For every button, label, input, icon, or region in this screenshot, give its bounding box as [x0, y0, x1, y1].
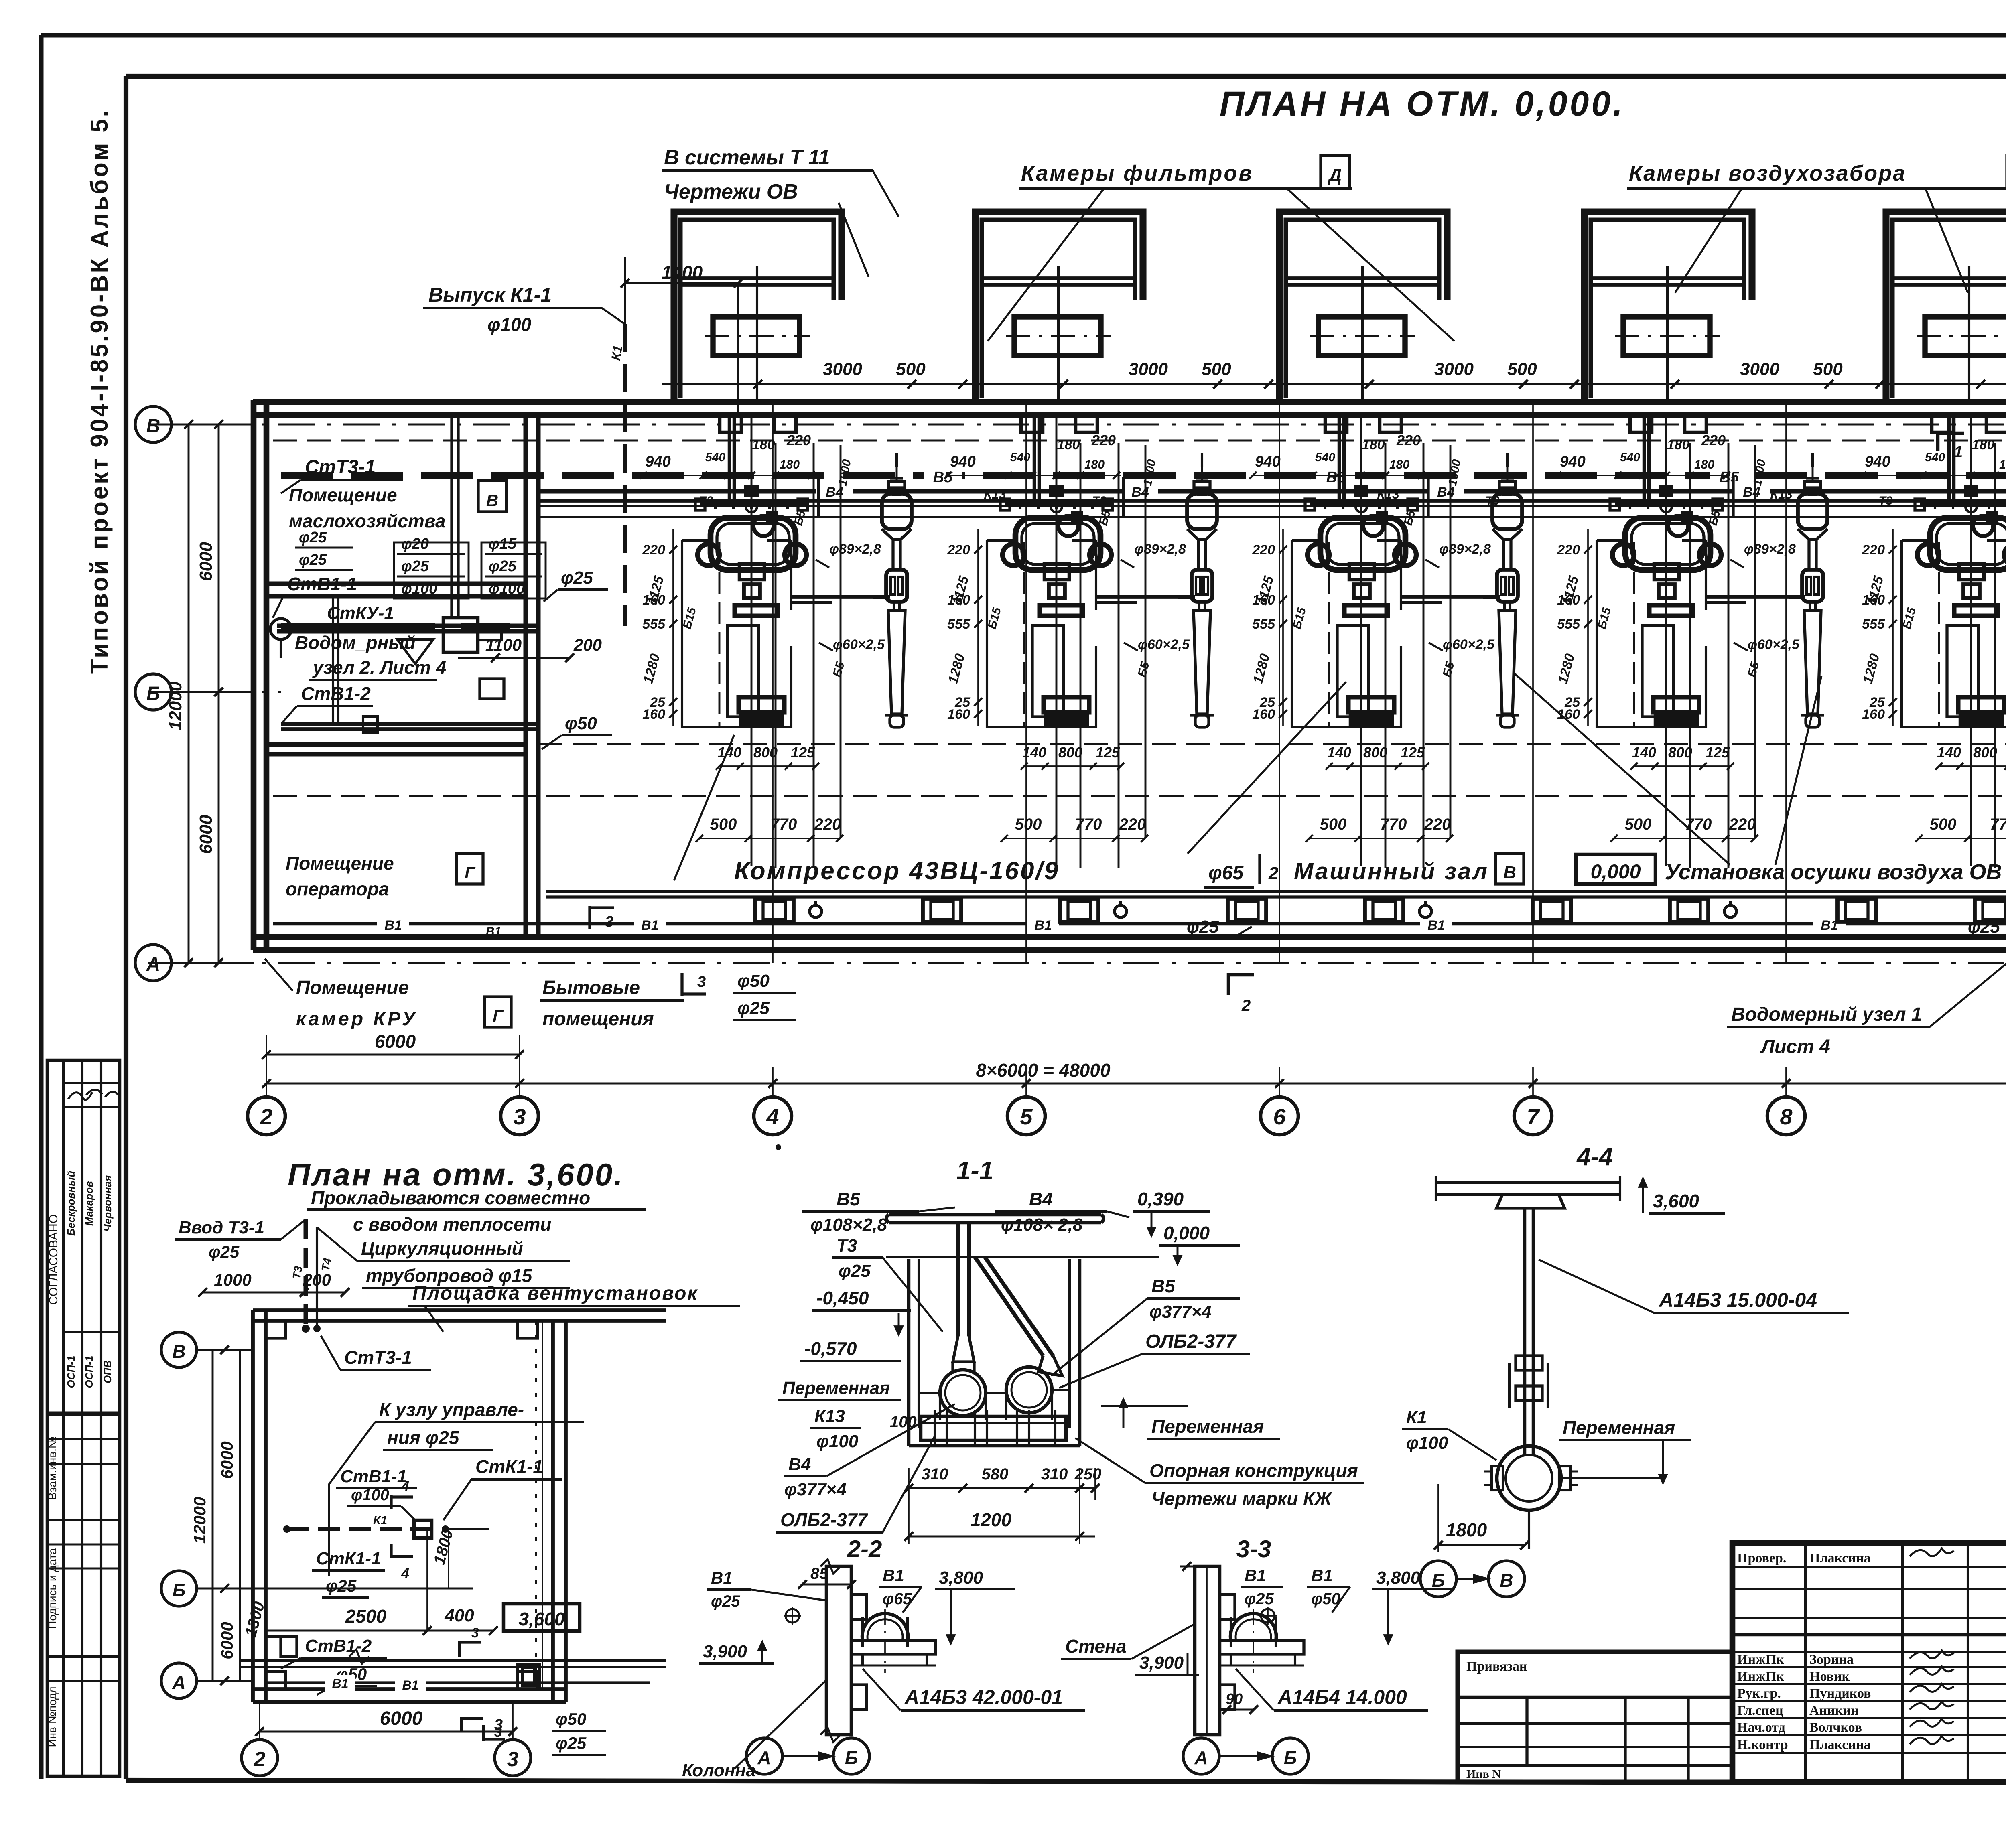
section 4-4 hanger rod	[1509, 1208, 1548, 1456]
svg-text:2500: 2500	[345, 1606, 387, 1627]
section 1-1 title	[956, 1156, 994, 1185]
svg-text:4: 4	[401, 1478, 409, 1495]
svg-text:ПЛАН НА ОТМ. 0,000.: ПЛАН НА ОТМ. 0,000.	[1220, 85, 1625, 123]
svg-text:ИнжПк: ИнжПк	[1737, 1669, 1784, 1684]
room label household	[540, 977, 684, 1030]
compressor unit 4	[1554, 415, 1805, 922]
svg-text:1000: 1000	[214, 1270, 251, 1289]
pipe line dashed upper	[273, 440, 2006, 442]
leaders to dryers	[1515, 674, 1821, 865]
svg-text:200: 200	[573, 635, 602, 654]
svg-text:В4: В4	[1437, 485, 1455, 500]
svg-text:12000: 12000	[190, 1497, 209, 1544]
svg-text:СтКУ-1: СтКУ-1	[327, 603, 394, 623]
svg-text:Инв №подл: Инв №подл	[46, 1686, 59, 1747]
svg-text:Бытовые: Бытовые	[542, 977, 640, 998]
pipe pedestal 3	[1533, 899, 1571, 922]
svg-text:Т4: Т4	[319, 1257, 333, 1272]
grid circle 3	[501, 1097, 538, 1135]
svg-text:3,800: 3,800	[1376, 1568, 1421, 1588]
svg-text:А: А	[146, 954, 160, 975]
section 3-3 wall	[1180, 1562, 1235, 1735]
svg-text:В1: В1	[332, 1676, 349, 1691]
pipe labels row	[699, 465, 2006, 507]
interior wall between oil room and hall	[526, 415, 538, 937]
small plan B1 line	[266, 1675, 650, 1692]
hall label: 0.000 box	[1576, 854, 1655, 884]
label StT3-1	[281, 456, 403, 493]
section 2-2 view circles A-B	[746, 1738, 869, 1774]
svg-text:3,900: 3,900	[1139, 1653, 1184, 1673]
hall label f25 right	[1965, 917, 2006, 939]
pipe line V4 upper	[538, 489, 2006, 494]
svg-text:φ25: φ25	[299, 552, 327, 568]
dryer hanger line 3	[1483, 453, 1507, 598]
label StV1-1 small	[336, 1467, 417, 1488]
svg-text:К узлу управле-: К узлу управле-	[379, 1399, 524, 1420]
leader from compressor label to unit 3	[1188, 682, 1346, 854]
compressor unit 1	[640, 415, 890, 922]
svg-text:φ25: φ25	[737, 998, 770, 1018]
svg-text:3: 3	[494, 1716, 503, 1733]
interior partition operator room	[266, 744, 526, 754]
pipe line V5	[281, 472, 2006, 479]
small plan grid circle 2	[242, 1702, 278, 1776]
svg-text:В1: В1	[883, 1566, 904, 1585]
svg-text:Циркуляционный: Циркуляционный	[361, 1238, 523, 1259]
svg-text:φ25: φ25	[556, 1734, 587, 1753]
oil room pipe size tables	[295, 529, 546, 598]
air dryer unit 4	[1798, 453, 1827, 727]
svg-text:А14Б4 14.000: А14Б4 14.000	[1277, 1686, 1407, 1708]
svg-text:Б: Б	[173, 1580, 186, 1601]
label: to system T11	[662, 146, 899, 277]
grid circle 7	[1514, 1097, 1552, 1135]
small plan platform top band	[253, 1310, 666, 1321]
svg-text:3000: 3000	[1434, 359, 1474, 379]
dryer hanger line 1	[873, 453, 897, 598]
svg-text:В: В	[1503, 863, 1516, 882]
svg-text:СтВ1-2: СтВ1-2	[301, 683, 371, 704]
svg-text:φ377×4: φ377×4	[784, 1480, 847, 1499]
svg-text:φ100: φ100	[489, 580, 525, 597]
section 4-4 title	[1576, 1143, 1613, 1171]
section 1-1 pit walls	[909, 1259, 1080, 1446]
section 1-1 vertical pipe down	[953, 1257, 974, 1372]
svg-text:φ100: φ100	[816, 1432, 859, 1451]
air chamber 5	[1886, 212, 2006, 402]
section 3-3 view circles A-B	[1183, 1738, 1308, 1774]
svg-text:φ15: φ15	[489, 536, 517, 552]
svg-text:Червонная: Червонная	[102, 1175, 114, 1232]
section marks 4	[391, 1478, 413, 1582]
label water meter unit 1	[1727, 919, 2006, 1057]
grid circle 4	[754, 1097, 792, 1135]
building left wall	[254, 400, 266, 950]
axis line A (row)	[148, 962, 2006, 964]
left approval table	[46, 1060, 120, 1776]
section 1-1 support beam	[921, 1410, 1066, 1446]
pipe line T3	[538, 506, 2006, 517]
svg-text:6000: 6000	[196, 815, 216, 854]
svg-text:Водом_рный: Водом_рный	[295, 632, 416, 653]
hall label: f65 2	[1204, 854, 1279, 887]
hall label f25 left	[1184, 917, 1252, 939]
small plan wall piers	[266, 1321, 538, 1689]
grid circle 2	[248, 1097, 285, 1135]
air dryer unit 3	[1492, 453, 1522, 727]
inlet pipe T3/T4 vertical	[290, 1219, 333, 1333]
pipe line K13/V4	[538, 499, 2006, 503]
section 4-4 part label	[1539, 1260, 1849, 1313]
svg-text:3: 3	[513, 1104, 526, 1129]
svg-text:Гл.спец: Гл.спец	[1737, 1703, 1783, 1718]
label f25 oil room	[544, 568, 608, 602]
title block frame	[1732, 1543, 2006, 1782]
section 1-1 right labels	[1051, 1276, 1364, 1509]
section mark 3 small plan	[459, 1625, 505, 1741]
svg-text:Т3: Т3	[290, 1265, 305, 1280]
svg-text:φ50: φ50	[565, 714, 597, 733]
svg-text:В системы Т 11: В системы Т 11	[664, 146, 830, 169]
svg-text:Рук.гр.: Рук.гр.	[1737, 1686, 1781, 1701]
interior partition oil room bottom	[266, 584, 526, 596]
svg-text:6000: 6000	[375, 1031, 416, 1052]
section 1-1 labels V5 V4 top	[802, 1189, 1129, 1235]
small plan row circle A	[161, 1663, 253, 1698]
grid circle 5	[1007, 1097, 1045, 1135]
label f100	[347, 1486, 415, 1520]
svg-text:Помещение: Помещение	[289, 485, 397, 505]
label StKU-1	[323, 603, 394, 625]
svg-text:К13: К13	[1377, 487, 1399, 501]
svg-text:φ25: φ25	[839, 1261, 871, 1281]
label circulation pipe	[317, 1227, 570, 1288]
svg-text:-0,450: -0,450	[816, 1288, 869, 1308]
svg-text:3: 3	[697, 974, 706, 990]
axis line B (row)	[148, 424, 2006, 426]
svg-text:СтК1-1: СтК1-1	[475, 1456, 543, 1477]
svg-text:Помещение: Помещение	[286, 853, 394, 874]
svg-text:ОСП-1: ОСП-1	[83, 1356, 95, 1388]
svg-text:2: 2	[254, 1748, 266, 1771]
dashed floor line lower	[273, 795, 2006, 797]
dimension 1400	[621, 257, 743, 417]
svg-text:Пундиков: Пундиков	[1809, 1686, 1871, 1701]
svg-text:6000: 6000	[380, 1708, 423, 1729]
section 4-4 labels K1	[1402, 1408, 1691, 1483]
row circle B	[135, 406, 254, 442]
svg-text:3000: 3000	[823, 359, 862, 379]
svg-text:Плаксина: Плаксина	[1809, 1737, 1871, 1752]
svg-text:2: 2	[1241, 997, 1251, 1014]
svg-text:φ25: φ25	[711, 1592, 740, 1610]
svg-text:3,600: 3,600	[518, 1609, 565, 1629]
svg-text:СОГЛАСОВАНО: СОГЛАСОВАНО	[47, 1214, 60, 1305]
label f50 small	[317, 1665, 377, 1695]
svg-text:3000: 3000	[1129, 359, 1168, 379]
svg-text:Лист 4: Лист 4	[1760, 1036, 1830, 1057]
section 2-2 clamp and shelf	[851, 1609, 936, 1673]
pipe pedestal 2	[1228, 899, 1266, 922]
svg-text:Н.контр: Н.контр	[1737, 1737, 1788, 1752]
label: filter chambers	[988, 156, 1454, 341]
hall label: compressor type	[734, 857, 1060, 885]
section 1-1 elevation 0.000	[1159, 1223, 1240, 1264]
svg-text:Б: Б	[1432, 1570, 1445, 1591]
small plan left wall	[253, 1310, 266, 1702]
svg-text:А: А	[757, 1747, 771, 1768]
small plan title	[288, 1157, 624, 1192]
elevation box 3.600	[504, 1604, 580, 1631]
label f25 small	[322, 1576, 369, 1598]
pipe size stack f50 f25 below	[733, 971, 796, 1020]
section 3-3 title	[1236, 1536, 1271, 1562]
oil room label	[289, 481, 506, 531]
pipe pedestal 4	[1837, 899, 1876, 922]
section 4-4 dim 1800	[1434, 1484, 1529, 1552]
svg-text:Переменная: Переменная	[782, 1378, 890, 1398]
svg-text:В1: В1	[486, 925, 501, 938]
svg-text:Колонна: Колонна	[682, 1761, 756, 1780]
title block signature rows text	[1737, 1548, 1954, 1752]
svg-text:580: 580	[982, 1465, 1009, 1483]
oil room piping	[270, 417, 538, 732]
svg-text:Б: Б	[845, 1747, 858, 1768]
wall piers	[720, 415, 2006, 432]
svg-text:Ввод Т3-1: Ввод Т3-1	[179, 1218, 264, 1237]
section 1-1 ground line	[886, 1256, 1159, 1258]
svg-text:3: 3	[507, 1748, 519, 1771]
air chamber 4	[1584, 212, 1752, 402]
svg-text:3000: 3000	[1740, 359, 1779, 379]
section 4-4 pipe ring	[1484, 1446, 1578, 1549]
svg-text:0,000: 0,000	[1590, 860, 1641, 883]
room label KRU	[265, 959, 511, 1030]
svg-text:В1: В1	[711, 1568, 733, 1587]
svg-text:Т3: Т3	[837, 1236, 857, 1256]
svg-text:φ50: φ50	[1311, 1590, 1340, 1608]
svg-text:0,000: 0,000	[1163, 1223, 1210, 1243]
svg-text:Бескровный: Бескровный	[65, 1171, 77, 1236]
svg-text:К1: К1	[1406, 1408, 1427, 1427]
svg-text:Стена: Стена	[1065, 1636, 1126, 1657]
svg-text:-0,570: -0,570	[804, 1338, 857, 1359]
dimension 6000 bottom left	[262, 1031, 524, 1075]
svg-text:Типовой проект 904-I-85.90-ВК: Типовой проект 904-I-85.90-ВК Альбом 5.	[86, 108, 113, 674]
svg-text:2: 2	[1268, 864, 1279, 883]
svg-text:Камеры фильтров: Камеры фильтров	[1021, 161, 1253, 185]
dim 1100 200	[458, 635, 602, 662]
svg-text:В5: В5	[1151, 1276, 1176, 1296]
svg-text:СтВ1-2: СтВ1-2	[305, 1636, 372, 1656]
dims 2500 400	[266, 1529, 498, 1635]
svg-text:В1: В1	[402, 1678, 419, 1692]
small plan inner dotted verticals	[536, 1321, 542, 1689]
chamber dimension row 3000/500	[662, 359, 2006, 389]
axis line B2 (row Б)	[148, 691, 281, 693]
svg-text:узел 2. Лист 4: узел 2. Лист 4	[312, 657, 446, 678]
svg-text:А: А	[172, 1672, 185, 1693]
svg-text:Помещение: Помещение	[296, 977, 409, 998]
svg-text:6: 6	[1273, 1104, 1286, 1129]
left margin vertical project title	[86, 108, 113, 674]
svg-text:оператора: оператора	[286, 878, 389, 899]
svg-text:500: 500	[1813, 359, 1843, 379]
svg-text:3: 3	[605, 913, 613, 930]
svg-text:Машинный зал: Машинный зал	[1294, 858, 1489, 884]
svg-text:ОПВ: ОПВ	[102, 1360, 114, 1383]
compressor unit 3	[1249, 415, 1500, 922]
svg-text:В1: В1	[641, 918, 658, 933]
svg-text:6000: 6000	[217, 1622, 236, 1659]
section 2-2 title	[847, 1536, 882, 1562]
label StK1-1 lower	[312, 1549, 385, 1570]
svg-text:8×6000 = 48000: 8×6000 = 48000	[976, 1060, 1111, 1081]
break pipe line across	[241, 1649, 666, 1667]
air chamber 2	[975, 212, 1143, 402]
row circle Б	[135, 674, 254, 710]
svg-text:500: 500	[896, 359, 926, 379]
compressor unit 5	[1859, 415, 2006, 922]
air dryer unit 2	[1187, 453, 1217, 727]
svg-text:3,900: 3,900	[703, 1642, 747, 1661]
label vent platform	[408, 1283, 740, 1332]
svg-text:φ25: φ25	[561, 568, 593, 588]
svg-text:СтТ3-1: СтТ3-1	[305, 456, 376, 478]
operator room label	[286, 853, 483, 899]
section mark 2 bottom	[1228, 973, 1254, 1014]
svg-text:8: 8	[1780, 1104, 1793, 1129]
label f50 oil room	[542, 714, 612, 749]
svg-text:Установка осушки воздуха ОВ 40: Установка осушки воздуха ОВ 40-2-1	[1665, 860, 2006, 884]
svg-text:В1: В1	[1034, 918, 1052, 933]
svg-text:0,390: 0,390	[1137, 1189, 1184, 1209]
small plan row circle B	[161, 1332, 253, 1367]
svg-text:В4: В4	[788, 1454, 811, 1474]
dryer hanger line 2	[1178, 453, 1202, 598]
svg-text:Прокладываются совместно: Прокладываются совместно	[311, 1187, 590, 1208]
svg-text:φ25: φ25	[489, 558, 517, 575]
svg-text:φ50: φ50	[737, 971, 770, 991]
svg-text:85: 85	[810, 1565, 828, 1582]
air dryer unit 1	[882, 453, 912, 727]
svg-text:1200: 1200	[971, 1509, 1012, 1530]
label StV1-2 small	[281, 1636, 387, 1669]
svg-text:12000: 12000	[166, 681, 185, 730]
svg-text:φ100: φ100	[351, 1486, 389, 1504]
svg-text:4-4: 4-4	[1576, 1143, 1613, 1171]
svg-text:В1: В1	[384, 918, 402, 933]
svg-text:Б: Б	[1284, 1747, 1297, 1768]
section 3-3 labels	[1061, 1566, 1452, 1714]
svg-text:К13: К13	[814, 1406, 845, 1426]
svg-text:1-1: 1-1	[956, 1156, 994, 1185]
svg-text:310: 310	[1041, 1465, 1068, 1483]
drain line K1	[608, 324, 625, 626]
section 1-1 dims	[904, 1465, 1101, 1544]
svg-text:φ25: φ25	[326, 1576, 357, 1595]
step feature right	[518, 1665, 540, 1689]
svg-text:СтК1-1: СтК1-1	[316, 1549, 381, 1568]
svg-text:Д: Д	[1327, 166, 1342, 185]
svg-text:Переменная: Переменная	[1563, 1417, 1675, 1438]
section 1-1 elevation 0.390	[1133, 1189, 1210, 1236]
grid 4 dot	[776, 1144, 781, 1150]
section 4-4 view circles Б-В	[1420, 1561, 1525, 1597]
svg-text:Нач.отд: Нач.отд	[1737, 1720, 1785, 1735]
svg-text:φ50: φ50	[556, 1710, 586, 1728]
svg-text:φ108× 2,8: φ108× 2,8	[1001, 1215, 1083, 1235]
svg-text:В: В	[1500, 1570, 1513, 1591]
svg-text:90: 90	[1226, 1691, 1243, 1708]
svg-text:5: 5	[1020, 1104, 1033, 1129]
K1 pipe line	[283, 1514, 489, 1538]
svg-text:1800: 1800	[1446, 1519, 1487, 1540]
svg-text:В1: В1	[1427, 918, 1445, 933]
svg-text:В1: В1	[1245, 1566, 1266, 1585]
svg-text:В4: В4	[1743, 485, 1760, 500]
compressor unit 2	[944, 415, 1195, 922]
svg-text:СтТ3-1: СтТ3-1	[344, 1347, 412, 1368]
svg-text:250: 250	[1074, 1465, 1102, 1483]
pipe line V1	[273, 915, 2006, 933]
svg-text:А14Б3 42.000-01: А14Б3 42.000-01	[904, 1686, 1063, 1708]
svg-text:3,600: 3,600	[1653, 1191, 1699, 1211]
svg-text:А14Б3 15.000-04: А14Б3 15.000-04	[1658, 1289, 1817, 1311]
air chamber 1	[674, 212, 842, 402]
section 2-2 column	[820, 1559, 867, 1742]
svg-text:План на отм. 3,600.: План на отм. 3,600.	[288, 1157, 624, 1192]
svg-text:500: 500	[1507, 359, 1537, 379]
svg-text:2-2: 2-2	[847, 1536, 882, 1562]
svg-text:Площадка вентустановок: Площадка вентустановок	[412, 1283, 698, 1304]
note laid together	[307, 1187, 646, 1235]
svg-text:К1: К1	[608, 344, 625, 361]
svg-text:Выпуск К1-1: Выпуск К1-1	[428, 284, 552, 306]
label vvod T3-1	[175, 1218, 306, 1261]
svg-text:Чертежи марки КЖ: Чертежи марки КЖ	[1151, 1488, 1332, 1509]
svg-text:φ100: φ100	[487, 314, 532, 335]
svg-text:СтВ1-1: СтВ1-1	[287, 574, 357, 594]
svg-text:6000: 6000	[196, 542, 216, 581]
svg-text:маслохозяйства: маслохозяйства	[289, 511, 446, 531]
svg-text:Опорная конструкция: Опорная конструкция	[1149, 1460, 1358, 1481]
svg-text:Б: Б	[146, 683, 160, 704]
svg-text:помещения: помещения	[542, 1008, 654, 1030]
label to control unit	[329, 1399, 584, 1576]
grid circle 6	[1261, 1097, 1298, 1135]
label: air intake chambers	[1627, 156, 2006, 293]
svg-text:φ25: φ25	[1968, 917, 2000, 937]
svg-text:3,800: 3,800	[939, 1568, 983, 1588]
hall label: air drying installation	[1665, 860, 2006, 884]
svg-text:А: А	[1194, 1747, 1208, 1768]
svg-text:Камеры воздухозабора: Камеры воздухозабора	[1629, 161, 1906, 185]
svg-text:К1: К1	[373, 1514, 387, 1527]
hall label: machine hall	[1294, 854, 1524, 884]
svg-text:3: 3	[471, 1625, 479, 1641]
svg-text:φ25: φ25	[1187, 917, 1219, 937]
svg-text:Чертежи ОВ: Чертежи ОВ	[664, 180, 798, 203]
left vertical dimension lines	[166, 420, 223, 967]
svg-text:φ65: φ65	[1208, 862, 1244, 884]
svg-text:В1: В1	[1311, 1566, 1333, 1585]
svg-text:4: 4	[401, 1565, 409, 1582]
pipe pedestal 1	[923, 899, 961, 922]
leader to compressor 1	[674, 735, 734, 880]
svg-text:СтВ1-1: СтВ1-1	[340, 1467, 407, 1486]
